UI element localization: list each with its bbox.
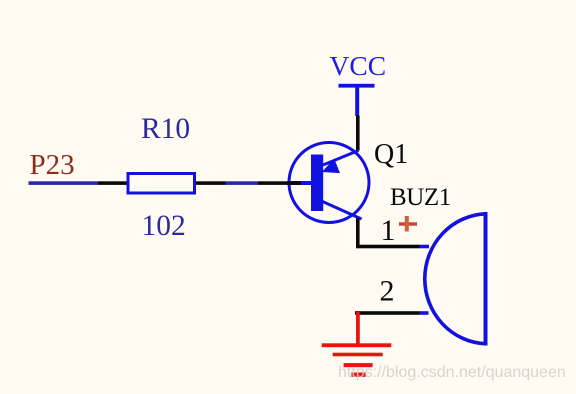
svg-text:Q1: Q1: [374, 139, 408, 170]
svg-text:https://blog.csdn.net/quanquee: https://blog.csdn.net/quanqueen: [338, 364, 566, 381]
svg-text:BUZ1: BUZ1: [390, 184, 451, 211]
svg-text:1: 1: [381, 214, 396, 247]
svg-text:VCC: VCC: [330, 50, 387, 81]
svg-text:R10: R10: [141, 113, 190, 145]
svg-text:P23: P23: [30, 149, 75, 181]
svg-text:102: 102: [142, 210, 186, 242]
svg-text:2: 2: [380, 275, 395, 308]
